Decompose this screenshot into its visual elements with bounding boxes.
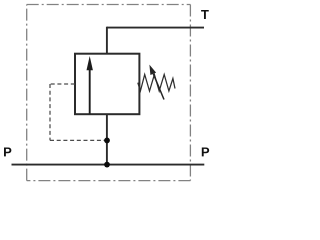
valve V1 flow arrow shaft <box>89 69 91 114</box>
wire: T line (tank line, top) <box>107 27 204 29</box>
adjustment arrow shaft (through spring) <box>153 74 164 100</box>
valve V1 flow arrow head <box>87 56 93 70</box>
valve V1 body (square envelope) <box>75 54 139 114</box>
spring (adjustable relief spring) <box>138 75 175 92</box>
pilot line vertical segment (dashed) <box>49 84 51 140</box>
wire: P line (pressure line, bottom) <box>12 164 205 166</box>
adjustment arrow head <box>149 65 156 75</box>
wire: riser from valve top to T line <box>106 27 108 54</box>
port label P (left) <box>4 147 11 156</box>
port label T (top right) <box>201 10 209 19</box>
junction node: pilot line to riser <box>104 138 110 144</box>
enclosure boundary (dash-dot frame) <box>27 5 191 181</box>
pilot line bottom segment (dashed) to junction <box>50 139 107 141</box>
pilot line (dashed) from valve left to P riser <box>50 83 75 85</box>
wire: riser from valve bottom to P line <box>106 114 108 165</box>
junction node: riser to P line <box>104 162 110 168</box>
port label P (bottom right) <box>202 147 209 156</box>
